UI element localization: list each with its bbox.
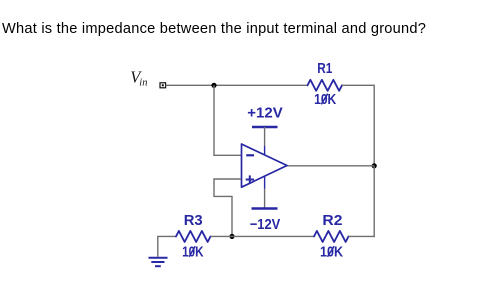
wire: noninverting input routing — [214, 179, 241, 237]
value 10K of R3 — [182, 245, 204, 261]
resistor R1 — [308, 80, 343, 91]
wire: ground riser to R3 — [158, 236, 176, 256]
value 10K of R1 — [314, 92, 337, 108]
-12V power bar — [252, 207, 278, 210]
node output junction — [372, 163, 377, 168]
resistor R2 — [314, 231, 349, 242]
+12V power bar — [252, 126, 278, 129]
op-amp V+ pin stub — [264, 146, 266, 155]
op-amp plus sign — [246, 175, 254, 183]
op-amp U1 — [242, 144, 288, 187]
svg-text:10K: 10K — [182, 245, 204, 261]
wire: R1 right to corner — [342, 84, 374, 86]
svg-text:in: in — [139, 78, 147, 89]
op-amp V- pin stub — [264, 177, 266, 189]
node Vin label — [130, 67, 147, 88]
wire: R2 right to vertical — [349, 235, 375, 237]
op-amp minus sign — [246, 154, 254, 156]
value 10K of R2 — [320, 245, 343, 261]
svg-text:10K: 10K — [320, 245, 343, 261]
wire: op-amp output to junction — [287, 165, 374, 167]
resistor R3 — [176, 231, 211, 242]
svg-text:+12V: +12V — [247, 106, 283, 122]
ground — [149, 258, 168, 266]
input terminal — [160, 83, 166, 88]
wire: junction down to inverting input — [214, 85, 241, 155]
node junction at Vin — [211, 83, 216, 88]
svg-text:R1: R1 — [317, 61, 332, 77]
node junction R3/R2 — [229, 234, 234, 239]
wire: input terminal to R1 — [166, 84, 308, 86]
question text — [2, 21, 426, 37]
wire: right vertical R1 to output node — [373, 85, 375, 166]
wire: +12V bar to op-amp — [264, 127, 266, 146]
svg-text:R3: R3 — [184, 213, 203, 229]
wire: junction down to R2 — [373, 166, 375, 237]
wire: R3 to junction to R2 — [211, 235, 315, 237]
svg-text:−12V: −12V — [250, 217, 281, 233]
svg-text:R2: R2 — [322, 213, 342, 229]
svg-text:10K: 10K — [314, 92, 337, 108]
wire: op-amp to -12V bar — [264, 189, 266, 209]
